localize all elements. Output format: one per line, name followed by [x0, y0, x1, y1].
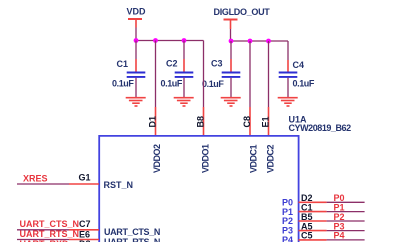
- pin G1: [69, 183, 99, 185]
- wire to pin D1: [155, 41, 157, 108]
- pin P1 (C1): [299, 211, 365, 213]
- pin D1: [155, 107, 157, 135]
- svg-text:0.1uF: 0.1uF: [293, 79, 315, 89]
- svg-text:VDDC1: VDDC1: [249, 144, 259, 173]
- svg-text:RST_N: RST_N: [104, 180, 134, 190]
- svg-text:D1: D1: [148, 116, 158, 128]
- pin C7: [69, 229, 99, 231]
- pin E6: [69, 239, 99, 241]
- wire DIGLDO_OUT stub: [230, 29, 233, 41]
- svg-text:CYW20819_B62: CYW20819_B62: [289, 123, 352, 133]
- svg-text:E1: E1: [261, 116, 271, 127]
- wire XRES: [17, 183, 69, 185]
- svg-text:UART_RTS_N: UART_RTS_N: [104, 237, 160, 242]
- svg-text:0.1uF: 0.1uF: [112, 79, 134, 89]
- junction at C3: [229, 39, 234, 44]
- op-amp U1A chip outline: [99, 136, 298, 242]
- wire UART_CTS_N: [17, 229, 69, 231]
- wire VDD bus: [136, 40, 204, 42]
- junction at C8: [248, 39, 253, 44]
- ground (C3): [221, 98, 241, 106]
- power symbol VDD: [127, 7, 147, 28]
- svg-text:XRES: XRES: [23, 173, 48, 183]
- svg-text:UART_CTS_N: UART_CTS_N: [104, 227, 160, 237]
- svg-text:P4: P4: [282, 235, 293, 242]
- svg-text:VDDC2: VDDC2: [266, 144, 276, 173]
- svg-text:B8: B8: [196, 116, 206, 128]
- pin P3 (A5): [299, 230, 365, 232]
- junction at C1: [134, 38, 139, 43]
- junction at E1: [266, 39, 271, 44]
- wire to pin E1: [268, 41, 270, 107]
- wire DIGLDO bus: [231, 40, 288, 42]
- junction at D1: [153, 38, 158, 43]
- svg-text:P4: P4: [334, 231, 345, 241]
- svg-text:C1: C1: [117, 59, 129, 69]
- pin P0 (D2): [299, 201, 365, 203]
- pin B8: [203, 107, 205, 135]
- svg-text:C3: C3: [211, 58, 223, 68]
- ground (C1): [126, 98, 146, 106]
- pin E1: [268, 107, 270, 135]
- capacitor C4: [279, 41, 315, 97]
- svg-text:C5: C5: [301, 231, 313, 241]
- svg-text:VDDO1: VDDO1: [201, 144, 211, 173]
- svg-text:VDD: VDD: [127, 7, 147, 17]
- pin P4 (C5): [299, 239, 365, 241]
- capacitor C1: [112, 41, 145, 98]
- svg-text:VDDO2: VDDO2: [152, 144, 162, 173]
- svg-text:C2: C2: [166, 59, 178, 69]
- capacitor C2: [161, 41, 194, 98]
- svg-text:C7: C7: [79, 219, 91, 229]
- pin P2 (B5): [299, 220, 365, 222]
- wire UART_RTS_N: [17, 239, 69, 241]
- capacitor C3: [202, 41, 240, 97]
- svg-text:UART_CTS_N: UART_CTS_N: [20, 219, 80, 229]
- ground (C4): [278, 98, 298, 106]
- svg-text:C4: C4: [293, 60, 305, 70]
- svg-text:0.1uF: 0.1uF: [161, 79, 183, 89]
- pin C8: [249, 107, 251, 135]
- wire VDD stub: [135, 28, 137, 41]
- wire to pin C8: [249, 41, 251, 107]
- power symbol DIGLDO_OUT: [214, 7, 271, 29]
- svg-text:G1: G1: [79, 173, 91, 183]
- wire to pin B8: [203, 41, 205, 108]
- svg-text:UART_RTS_N: UART_RTS_N: [20, 229, 80, 239]
- junction at C2: [182, 38, 187, 43]
- svg-text:C8: C8: [242, 116, 252, 128]
- ground (C2): [174, 98, 194, 106]
- svg-text:DIGLDO_OUT: DIGLDO_OUT: [214, 7, 271, 17]
- svg-text:0.1uF: 0.1uF: [202, 79, 224, 89]
